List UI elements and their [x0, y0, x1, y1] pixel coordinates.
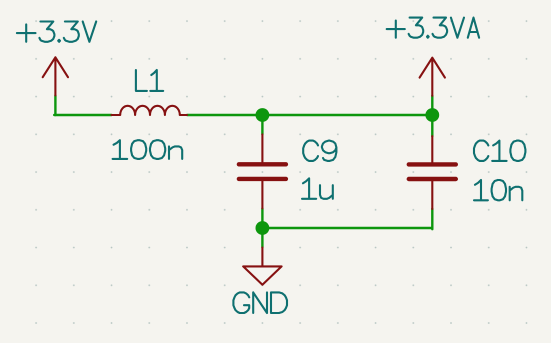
- wire: right power stem to node B: [431, 96, 433, 115]
- ground: [243, 248, 281, 285]
- node A junction: [256, 108, 270, 122]
- wire: node A to node B: [262, 114, 432, 116]
- wire: node A down to C9 pin 1: [261, 115, 263, 134]
- wire: node C to bottom corner: [262, 227, 432, 229]
- value 100n: [113, 140, 183, 159]
- capacitor C10: [409, 136, 456, 209]
- wire: corner to L1 pin 1: [54, 114, 111, 116]
- net label GND: [233, 292, 287, 313]
- wire: left power stem to corner: [54, 95, 56, 115]
- reference C10: [474, 141, 525, 161]
- net label +3.3VA: [387, 18, 479, 38]
- net label +3.3V: [17, 22, 96, 42]
- inductor L1: [112, 106, 188, 115]
- reference L1: [136, 70, 163, 91]
- value 1u: [302, 178, 333, 198]
- wire: C9 pin 2 through node C to GND: [261, 208, 263, 247]
- node C junction: [256, 221, 270, 235]
- power symbol +3.3VA (arrow): [420, 58, 445, 96]
- value 10n: [474, 180, 522, 200]
- wire: L1 pin 2 to node A: [187, 114, 262, 116]
- wire: bottom corner up to C10 pin 2: [431, 209, 433, 229]
- node B junction: [425, 108, 439, 122]
- wire: node B down to C10 pin 1: [431, 115, 433, 136]
- power symbol +3.3V (arrow): [43, 57, 68, 95]
- capacitor C9: [239, 134, 286, 208]
- reference C9: [303, 141, 336, 161]
